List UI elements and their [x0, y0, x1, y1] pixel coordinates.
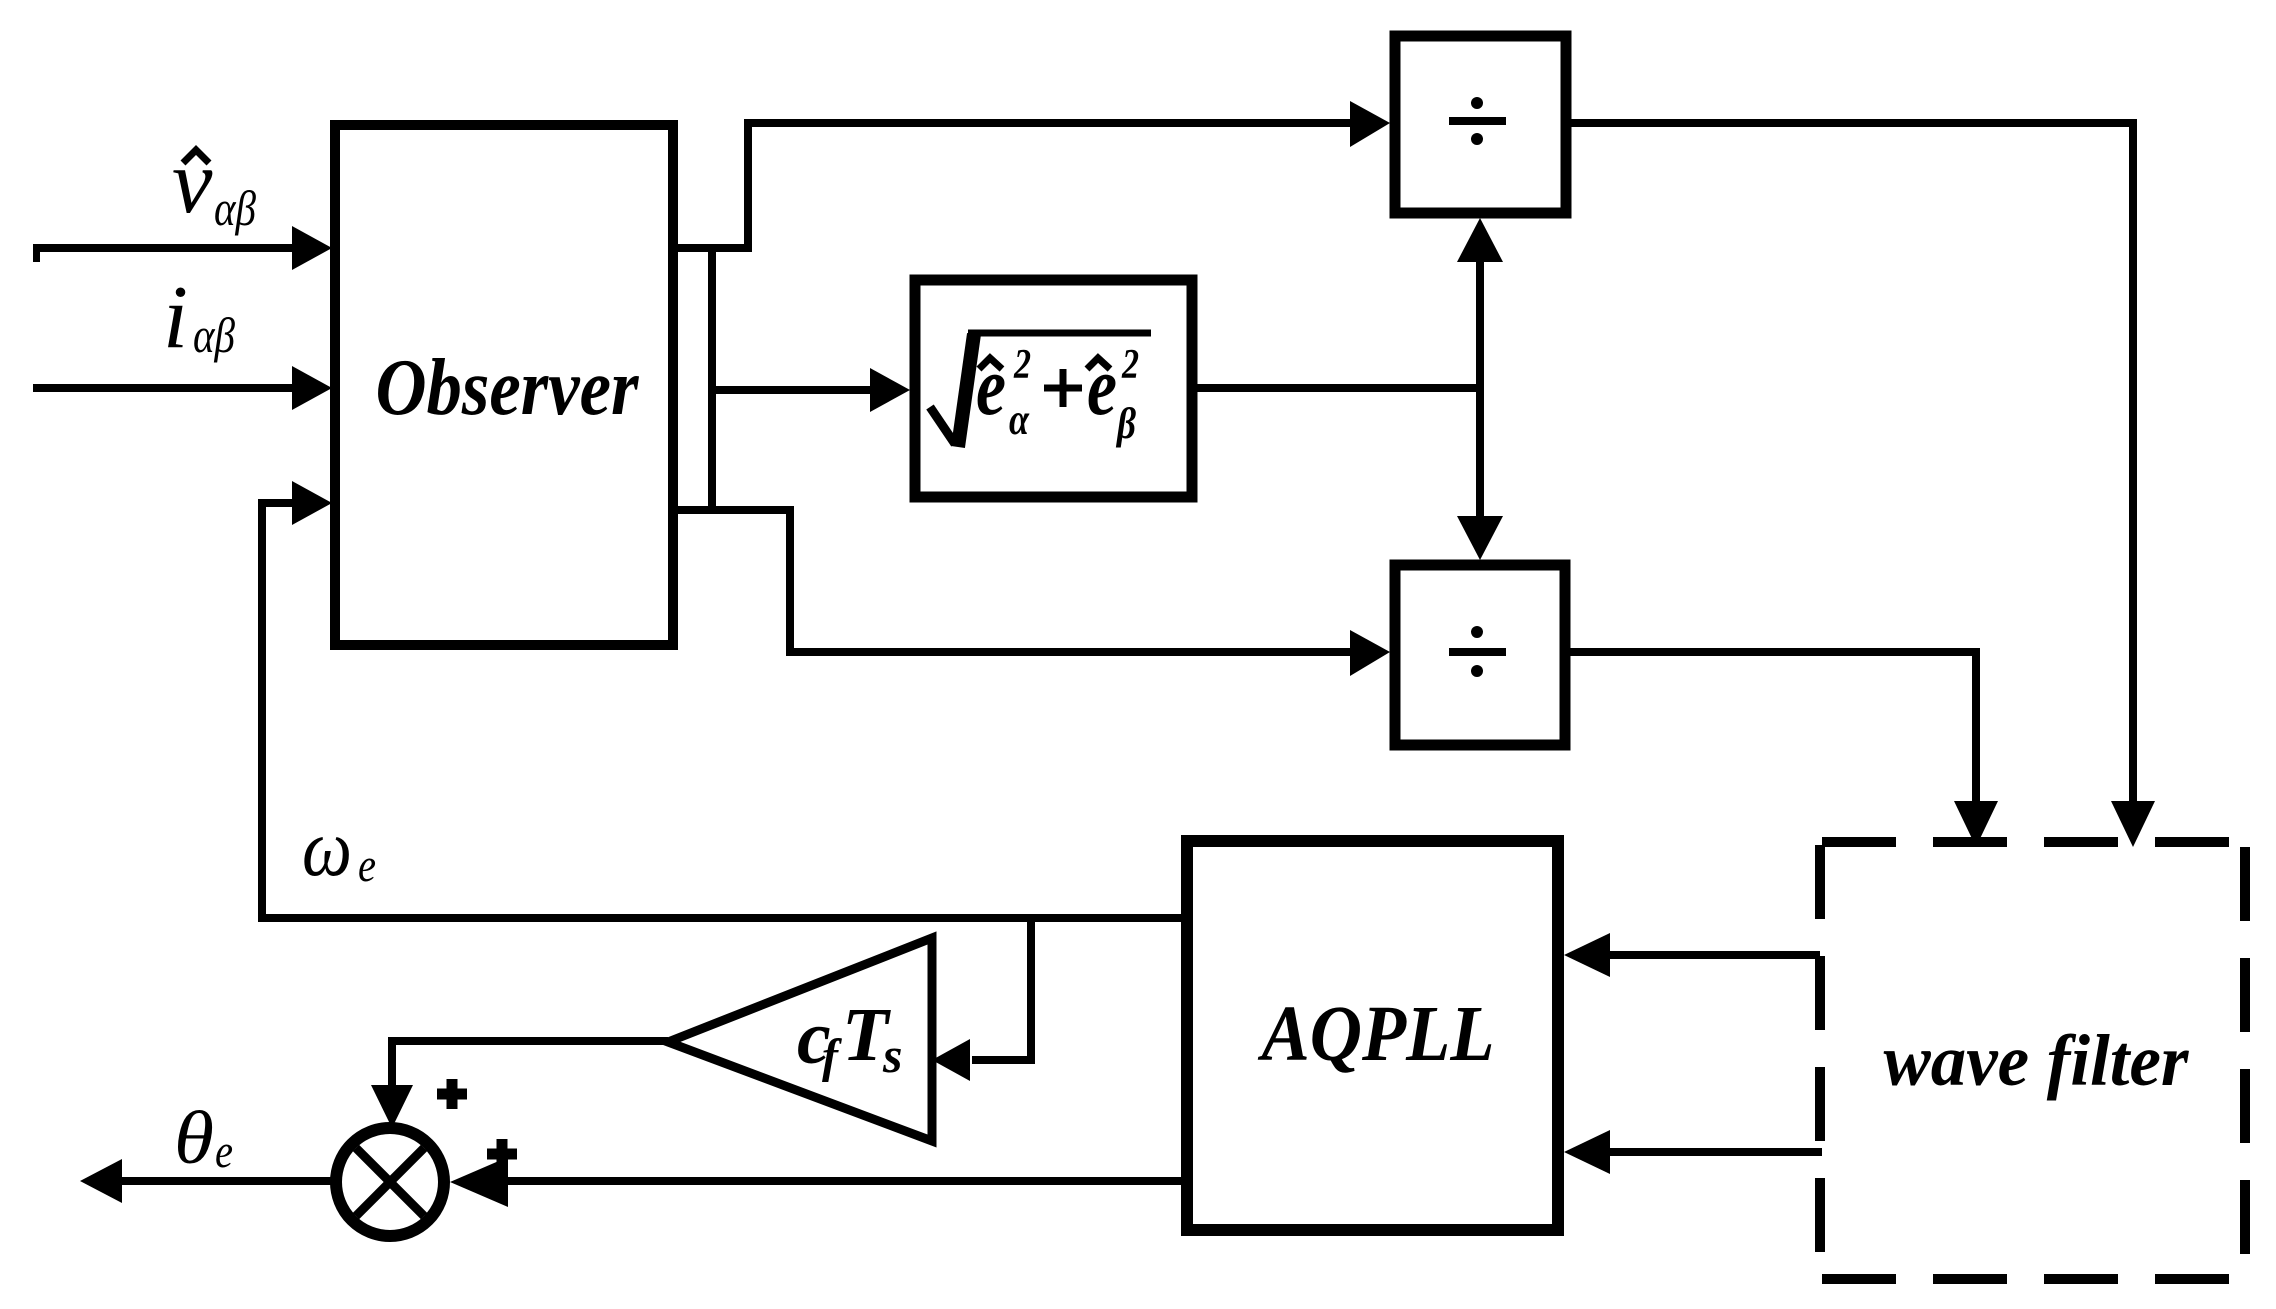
wire output theta: [100, 1177, 336, 1185]
wire omega_e from AQPLL: [258, 914, 1187, 922]
wire between dividers: [1476, 250, 1484, 525]
arrowhead down into summator: [371, 1085, 413, 1128]
summation circle: [336, 1128, 444, 1236]
svg-text:wave filter: wave filter: [1884, 1020, 2190, 1101]
svg-text:α: α: [1009, 395, 1030, 444]
gain triangle cfTs: [668, 938, 932, 1141]
wire input i: [33, 384, 298, 392]
svg-text:θ: θ: [174, 1097, 214, 1180]
wire AQPLL output to summator: [505, 1177, 1187, 1185]
svg-text:αβ: αβ: [193, 307, 235, 363]
wire divider bottom output: [1570, 652, 1976, 806]
svg-text:e: e: [358, 839, 376, 892]
block AQPLL: [1187, 841, 1558, 1230]
svg-text:ω: ω: [302, 802, 352, 893]
arrowhead into bottom divider: [1350, 630, 1390, 676]
block divider bottom: [1395, 565, 1565, 745]
plus sign right input: [487, 1139, 517, 1169]
svg-text:e: e: [976, 340, 1006, 433]
arrowhead up into top divider: [1457, 218, 1503, 262]
arrowhead into summator right: [450, 1157, 508, 1207]
block sqrt magnitude: [915, 280, 1192, 497]
wire sqrt output to divider bus: [1192, 384, 1484, 392]
arrowhead feedback into observer: [292, 481, 332, 525]
block Observer: [335, 125, 673, 645]
arrowhead into AQPLL lower: [1564, 1130, 1610, 1174]
arrowhead into AQPLL upper: [1564, 933, 1610, 977]
arrowhead into sqrt block: [870, 368, 910, 412]
block wave filter dashed: [1820, 842, 2245, 1279]
svg-text:2: 2: [1013, 342, 1031, 388]
svg-text:β: β: [1115, 399, 1136, 448]
svg-text:v: v: [172, 131, 213, 232]
svg-text:AQPLL: AQPLL: [1257, 991, 1495, 1078]
svg-text:i: i: [163, 268, 188, 367]
svg-text:e: e: [215, 1125, 233, 1178]
wire omega branch to gain input: [972, 918, 1031, 1060]
arrowhead into gain triangle: [932, 1039, 970, 1081]
arrowhead output theta: [80, 1159, 122, 1203]
wire divider top output: [1571, 123, 2133, 806]
svg-text:αβ: αβ: [214, 180, 256, 236]
svg-text:e: e: [1087, 340, 1117, 433]
label v_alphabeta: [172, 131, 256, 236]
wire input v: [33, 244, 298, 262]
wire gain output to summator: [392, 1041, 668, 1088]
arrowhead input i: [292, 366, 332, 410]
arrowhead input v: [292, 226, 332, 270]
wire output bus vertical: [708, 244, 716, 514]
wire to sqrt block: [712, 386, 875, 394]
label i_alphabeta: [163, 268, 235, 367]
svg-text:Observer: Observer: [376, 344, 640, 432]
wire observer bottom output: [678, 510, 1356, 652]
label omega_e: [302, 802, 376, 893]
wire wave filter to AQPLL upper: [1606, 951, 1820, 959]
wire wave filter to AQPLL lower: [1606, 1148, 1822, 1156]
label theta_e: [174, 1097, 233, 1180]
arrowhead down into wave filter left: [1954, 801, 1998, 847]
wire feedback omega into observer: [262, 503, 298, 918]
arrowhead down into wave filter right: [2111, 801, 2155, 847]
arrowhead into top divider: [1350, 101, 1390, 147]
plus sign top input: [437, 1079, 467, 1109]
svg-text:s: s: [882, 1027, 902, 1083]
arrowhead down into bottom divider: [1457, 516, 1503, 560]
block divider top: [1395, 36, 1566, 213]
wire observer top output: [678, 123, 1356, 248]
svg-text:2: 2: [1121, 342, 1139, 388]
